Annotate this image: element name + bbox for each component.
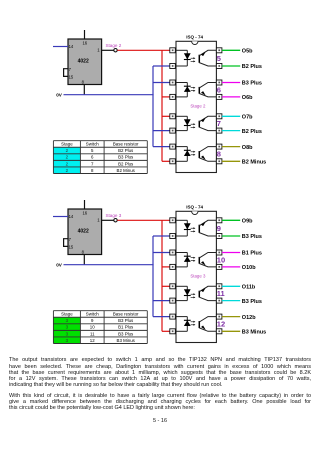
svg-text:5: 5 xyxy=(217,54,221,63)
svg-text:15: 15 xyxy=(69,75,74,80)
svg-text:Stage 2: Stage 2 xyxy=(190,103,206,108)
svg-text:5: 5 xyxy=(91,148,94,153)
svg-text:6: 6 xyxy=(217,85,221,94)
svg-text:10: 10 xyxy=(90,325,95,330)
svg-text:O12b: O12b xyxy=(242,315,256,321)
svg-text:16: 16 xyxy=(82,40,87,45)
svg-text:Base resistor: Base resistor xyxy=(113,142,139,147)
svg-text:O9b: O9b xyxy=(242,219,253,225)
svg-text:12: 12 xyxy=(217,320,225,329)
svg-text:B2 Minus: B2 Minus xyxy=(117,168,136,173)
svg-text:Stage 2: Stage 2 xyxy=(105,43,121,48)
svg-text:11: 11 xyxy=(217,289,225,298)
svg-text:ISQ - 74: ISQ - 74 xyxy=(186,35,203,40)
svg-text:14: 14 xyxy=(69,44,74,49)
svg-text:O5b: O5b xyxy=(242,49,253,55)
svg-text:B3 Plus: B3 Plus xyxy=(242,81,262,87)
svg-text:7: 7 xyxy=(91,161,94,166)
svg-text:Stage: Stage xyxy=(61,142,73,147)
svg-text:0V: 0V xyxy=(56,263,63,268)
svg-text:8: 8 xyxy=(91,168,94,173)
svg-text:O11b: O11b xyxy=(242,285,256,291)
svg-text:B3 Plus: B3 Plus xyxy=(118,155,134,160)
svg-text:B2 Plus: B2 Plus xyxy=(242,129,262,135)
svg-text:11: 11 xyxy=(90,331,95,336)
svg-text:9: 9 xyxy=(217,224,221,233)
svg-text:7: 7 xyxy=(217,119,221,128)
svg-text:B2 Plus: B2 Plus xyxy=(118,148,134,153)
svg-text:Base resistor: Base resistor xyxy=(113,312,139,317)
svg-text:15: 15 xyxy=(69,245,74,250)
svg-text:Switch: Switch xyxy=(86,312,99,317)
svg-text:B1 Plus: B1 Plus xyxy=(118,325,134,330)
svg-text:B3 Plus: B3 Plus xyxy=(118,318,134,323)
svg-text:B3 Minus: B3 Minus xyxy=(117,338,136,343)
svg-text:B3 Plus: B3 Plus xyxy=(242,299,262,305)
svg-text:Stage: Stage xyxy=(61,312,73,317)
svg-text:4022: 4022 xyxy=(78,229,89,235)
svg-text:8: 8 xyxy=(217,150,221,159)
svg-text:O8b: O8b xyxy=(242,145,253,151)
svg-text:4022: 4022 xyxy=(78,59,89,65)
svg-text:16: 16 xyxy=(82,210,87,215)
svg-text:Switch: Switch xyxy=(86,142,99,147)
svg-text:ISQ - 74: ISQ - 74 xyxy=(186,205,203,210)
svg-text:B2 Minus: B2 Minus xyxy=(242,160,266,166)
svg-text:6: 6 xyxy=(91,155,94,160)
svg-text:O10b: O10b xyxy=(242,265,256,271)
svg-text:O6b: O6b xyxy=(242,95,253,101)
svg-text:B2 Plus: B2 Plus xyxy=(242,64,262,70)
svg-text:B3 Plus: B3 Plus xyxy=(242,234,262,240)
svg-text:9: 9 xyxy=(91,318,94,323)
svg-text:12: 12 xyxy=(90,338,95,343)
svg-text:B1 Plus: B1 Plus xyxy=(242,251,262,257)
svg-text:Stage 3: Stage 3 xyxy=(105,213,121,218)
svg-text:Stage 3: Stage 3 xyxy=(190,273,206,278)
svg-text:O7b: O7b xyxy=(242,115,253,121)
svg-text:10: 10 xyxy=(217,255,225,264)
svg-text:14: 14 xyxy=(69,214,74,219)
svg-text:B3 Minus: B3 Minus xyxy=(242,330,266,336)
svg-text:B2 Plus: B2 Plus xyxy=(118,161,134,166)
svg-text:B3 Plus: B3 Plus xyxy=(118,331,134,336)
svg-text:0V: 0V xyxy=(56,93,63,98)
